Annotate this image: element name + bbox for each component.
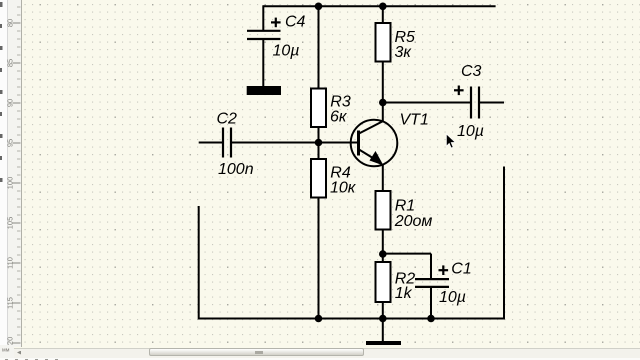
node: C1 / bottom rail junction bbox=[427, 315, 435, 323]
wire: top rail to C4 bbox=[262, 5, 264, 30]
wire: bottom rail bbox=[199, 318, 504, 320]
wire: C4 to ground bbox=[262, 39, 264, 86]
value label 10к (R4) bbox=[330, 180, 357, 197]
svg-text:90: 90 bbox=[6, 99, 15, 107]
left toolbar sliver bbox=[0, 0, 8, 360]
value label 10µ (C3) bbox=[457, 123, 484, 140]
label R1 bbox=[395, 198, 415, 215]
resistor R2 bbox=[376, 262, 391, 302]
label R4 bbox=[330, 165, 351, 182]
resistor R3 bbox=[311, 89, 326, 128]
svg-text:105: 105 bbox=[6, 217, 15, 230]
wire: emitter node to R2 bbox=[382, 254, 384, 262]
wire: R3 to base node bbox=[318, 127, 320, 143]
value label 10µ (C4) bbox=[273, 42, 300, 59]
horizontal scrollbar bbox=[14, 348, 640, 359]
bottom edge status row bbox=[0, 358, 640, 360]
svg-text:100: 100 bbox=[6, 177, 15, 190]
capacitor C3 bbox=[454, 86, 479, 119]
svg-text:95: 95 bbox=[6, 139, 15, 147]
wire: top supply rail bbox=[263, 5, 495, 7]
wire: C3 output stub bbox=[480, 102, 504, 104]
label R2 bbox=[395, 270, 416, 287]
wire: R4 to bottom rail bbox=[318, 198, 320, 319]
wire: base node to transistor base bbox=[319, 142, 359, 144]
node: collector junction bbox=[379, 99, 387, 107]
wire: base node to R4 bbox=[318, 143, 320, 160]
transistor VT1 bbox=[351, 103, 398, 192]
wire: left vertical segment bbox=[198, 206, 200, 320]
svg-text:110: 110 bbox=[6, 257, 15, 269]
wire: top rail to R3 bbox=[318, 6, 320, 88]
wire: R5 to collector node bbox=[382, 62, 384, 103]
label VT1 bbox=[400, 112, 429, 129]
label R5 bbox=[395, 29, 416, 46]
resistor R5 bbox=[376, 23, 391, 62]
node: base junction bbox=[315, 139, 323, 147]
label C4 bbox=[285, 14, 306, 31]
svg-text:80: 80 bbox=[6, 19, 15, 27]
label C1 bbox=[451, 260, 471, 277]
wire: R1 to emitter node bbox=[382, 230, 384, 255]
value label 6к (R3) bbox=[330, 109, 348, 126]
svg-text:115: 115 bbox=[6, 297, 15, 309]
capacitor C2 bbox=[223, 128, 231, 158]
label R3 bbox=[330, 94, 351, 111]
wire: C2 input stub bbox=[199, 142, 222, 144]
value label 3к (R5) bbox=[395, 44, 413, 61]
value label 100n (C2) bbox=[218, 161, 254, 178]
node: R1/R2/C1 junction bbox=[379, 250, 387, 258]
label C3 bbox=[461, 63, 482, 80]
ruler ticks bbox=[17, 7, 21, 343]
node: R2 / bottom rail junction bbox=[379, 315, 387, 323]
wire: right vertical segment bbox=[503, 167, 505, 320]
value label 10µ (C1) bbox=[439, 289, 466, 306]
node: top rail / R5 branch bbox=[379, 3, 387, 11]
value label 1k (R2) bbox=[395, 285, 413, 302]
node: R4 / bottom rail junction bbox=[315, 315, 323, 323]
vertical ruler bbox=[8, 0, 22, 347]
toolbar icon fragments bbox=[0, 2, 3, 182]
resistor R1 bbox=[376, 191, 391, 230]
mouse cursor bbox=[446, 134, 455, 148]
capacitor C4 bbox=[247, 18, 281, 39]
node: top rail / R3 branch bbox=[315, 3, 323, 11]
wire: top rail to R5 bbox=[382, 6, 384, 23]
value label 20ом (R1) bbox=[394, 213, 433, 230]
wire: bottom rail to ground bbox=[382, 319, 384, 343]
ground (bottom rail) bbox=[366, 341, 401, 345]
wire: C2 to base node bbox=[232, 142, 319, 144]
wire: R2 to bottom rail bbox=[382, 302, 384, 319]
wire: collector node to C3 bbox=[383, 102, 470, 104]
svg-text:85: 85 bbox=[6, 59, 15, 67]
resistor R4 bbox=[311, 159, 326, 198]
wire: emitter node to C1 bbox=[383, 254, 431, 279]
capacitor C1 bbox=[415, 265, 449, 287]
label C2 bbox=[217, 111, 238, 128]
ground (below C4) bbox=[247, 86, 281, 95]
wire: C1 to bottom rail bbox=[430, 287, 432, 319]
